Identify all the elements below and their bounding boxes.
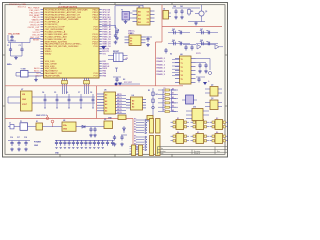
svg-text:NET4: NET4 <box>117 105 122 108</box>
svg-text:K6: K6 <box>216 132 218 134</box>
dcdc U8 <box>62 120 103 131</box>
svg-text:A2: A2 <box>105 100 107 103</box>
power label <box>36 115 47 117</box>
svg-text:O3: O3 <box>147 22 149 24</box>
sot part <box>163 8 171 20</box>
regulator U7 <box>8 89 32 111</box>
svg-text:RS485_3: RS485_3 <box>157 67 166 70</box>
svg-text:B0: B0 <box>132 101 134 103</box>
svg-text:K4: K4 <box>177 131 179 134</box>
ic U4 <box>175 53 196 84</box>
dc input parts <box>8 123 20 129</box>
svg-text:U7: U7 <box>21 89 23 91</box>
power blob bl <box>115 82 140 85</box>
power rails <box>32 97 95 103</box>
svg-text:8MHz: 8MHz <box>7 64 12 66</box>
svg-text:F1: F1 <box>20 121 22 123</box>
relay K2 <box>191 118 210 130</box>
bl text <box>34 142 41 148</box>
dc out ic <box>103 119 113 129</box>
hdr bottom part <box>147 116 153 123</box>
svg-text:C2: C2 <box>19 45 21 47</box>
u4 right wires <box>196 59 212 75</box>
svg-text:NET6: NET6 <box>117 112 122 114</box>
svg-text:IN2: IN2 <box>138 19 141 21</box>
svg-text:T2: T2 <box>181 67 183 69</box>
svg-text:C18: C18 <box>24 137 27 139</box>
svg-text:PB5: PB5 <box>102 76 106 78</box>
bl caps row <box>8 137 30 151</box>
u3 right parts <box>146 37 153 47</box>
u5 label <box>104 90 106 92</box>
svg-text:B1: B1 <box>132 103 134 105</box>
svg-text:K4: K4 <box>134 128 136 131</box>
svg-text:O2: O2 <box>147 19 149 21</box>
dc diode2 <box>121 126 127 135</box>
mcu U1 designator <box>58 6 78 8</box>
sot Q2 <box>205 85 222 97</box>
switch SW1 <box>36 121 62 130</box>
right mcu button S1 <box>108 51 129 62</box>
svg-text:D5: D5 <box>147 121 149 123</box>
tr wires2 <box>188 22 205 26</box>
svg-text:OSC 32.768K: OSC 32.768K <box>8 34 20 36</box>
svg-text:C5: C5 <box>54 92 56 94</box>
svg-text:P5: P5 <box>164 109 166 111</box>
svg-text:Y3: Y3 <box>121 10 123 12</box>
svg-text:R9: R9 <box>191 11 193 13</box>
svg-text:T3: T3 <box>181 71 183 73</box>
svg-text:Rev: Rev <box>217 151 220 153</box>
svg-text:TX1: TX1 <box>102 54 105 56</box>
ladder header <box>158 88 176 113</box>
divider v1 top <box>161 5 163 27</box>
mcu U1 right pin names <box>92 9 98 77</box>
bl mid caps <box>113 135 124 146</box>
svg-text:IN0: IN0 <box>138 12 141 14</box>
svg-text:NET1: NET1 <box>117 97 122 99</box>
fuse F1 <box>20 121 36 131</box>
mcu U1 bottom pins <box>62 78 90 94</box>
power port <box>46 115 49 120</box>
divider h2 topright <box>162 26 222 28</box>
svg-text:P1: P1 <box>164 92 166 94</box>
ic U6 <box>126 95 146 110</box>
u4 bottom right parts <box>196 77 210 85</box>
svg-text:RS485_0: RS485_0 <box>157 57 166 60</box>
crystal to mcu wires <box>30 38 41 42</box>
mcu U1 right pins <box>99 9 111 77</box>
svg-text:B2: B2 <box>132 106 134 108</box>
svg-text:RS485_2: RS485_2 <box>157 63 166 66</box>
svg-text:U3: U3 <box>130 33 132 35</box>
svg-text:U10: U10 <box>193 107 196 109</box>
svg-text:K3: K3 <box>216 118 218 120</box>
svg-text:J1: J1 <box>9 123 11 125</box>
svg-text:A5: A5 <box>105 110 107 113</box>
svg-text:GND: GND <box>63 129 68 131</box>
svg-text:GND: GND <box>22 99 27 101</box>
svg-text:P0: P0 <box>164 88 166 90</box>
svg-text:U5: U5 <box>104 90 106 92</box>
u4 top caps <box>183 45 223 51</box>
u4 net label stack <box>157 57 180 76</box>
u3 above labels <box>128 30 135 35</box>
svg-text:A3: A3 <box>105 103 107 106</box>
svg-text:IN1: IN1 <box>138 15 141 17</box>
sheet outer border <box>3 3 228 158</box>
svg-text:IN3: IN3 <box>138 22 141 24</box>
mid net labels <box>117 94 126 114</box>
svg-text:POWER: POWER <box>34 142 41 144</box>
divider h1 <box>5 85 183 87</box>
divider v3 <box>132 119 134 155</box>
cap array C20-C31 <box>55 140 106 148</box>
svg-text:VCC_EXT: VCC_EXT <box>124 82 133 84</box>
svg-text:A0: A0 <box>105 94 107 97</box>
right col labels <box>172 87 178 112</box>
svg-text:C41: C41 <box>180 5 183 8</box>
svg-text:O0: O0 <box>147 12 149 14</box>
divider part <box>108 115 126 120</box>
svg-text:A1: A1 <box>105 97 107 100</box>
svg-text:C8: C8 <box>90 92 92 94</box>
svg-text:D2: D2 <box>130 44 132 46</box>
tr circuit <box>172 5 200 19</box>
svg-text:Title: Title <box>160 147 163 150</box>
svg-text:C17: C17 <box>17 137 20 139</box>
svg-text:R3: R3 <box>148 90 150 92</box>
svg-text:K1: K1 <box>177 118 179 120</box>
divider v2 <box>96 86 98 119</box>
svg-text:Q2: Q2 <box>211 85 213 87</box>
sot Q3 <box>205 98 222 110</box>
marks x116 <box>115 68 118 72</box>
relay K1 <box>171 118 190 130</box>
svg-text:K5: K5 <box>197 132 199 134</box>
svg-text:VIN+: VIN+ <box>63 125 67 127</box>
svg-text:NET5: NET5 <box>117 109 122 111</box>
svg-text:PA4/SPI1/FSMC: PA4/SPI1/FSMC <box>45 75 61 78</box>
svg-text:D0: D0 <box>130 38 132 40</box>
mcu U1 left net labels <box>28 6 41 77</box>
svg-text:VDDA/: VDDA/ <box>45 53 52 56</box>
mcu U1 left pin names <box>45 8 88 77</box>
right mcu cap circuit <box>102 25 119 44</box>
svg-text:RS485_5: RS485_5 <box>157 73 166 76</box>
filter caps row <box>42 91 95 108</box>
svg-text:P2: P2 <box>164 96 166 98</box>
svg-text:A4: A4 <box>105 106 107 109</box>
svg-text:C1: C1 <box>7 45 9 47</box>
relay K4 <box>171 131 190 144</box>
ic U9b <box>186 107 209 121</box>
svg-text:C6: C6 <box>66 92 68 94</box>
svg-text:U6: U6 <box>132 95 134 97</box>
svg-text:C40: C40 <box>173 5 176 8</box>
svg-text:P3: P3 <box>164 101 166 103</box>
osc small parts <box>8 35 16 42</box>
svg-text:D1: D1 <box>130 41 132 43</box>
divider h3 <box>5 118 133 120</box>
connector J3 <box>134 136 160 156</box>
array label <box>55 152 60 154</box>
svg-text:T5: T5 <box>181 79 183 81</box>
relay K3 <box>210 118 229 130</box>
svg-text:GND VCC3.3: GND VCC3.3 <box>36 115 47 117</box>
relay K6 <box>210 132 229 144</box>
svg-text:C4: C4 <box>42 91 44 94</box>
svg-text:RESET: RESET <box>33 39 40 41</box>
svg-text:S1: S1 <box>36 121 38 123</box>
svg-text:Number: Number <box>160 151 166 153</box>
cap array extra <box>106 140 114 146</box>
xtal Y2 <box>182 95 197 104</box>
right mcu bottom cluster <box>113 77 125 86</box>
ic U3 <box>125 33 146 45</box>
u2 left parts <box>121 10 133 24</box>
svg-text:S2: S2 <box>123 79 125 81</box>
svg-text:J4: J4 <box>163 8 165 11</box>
svg-text:GND: GND <box>34 145 39 147</box>
ic U5 <box>97 92 117 114</box>
sheet inner border <box>5 5 225 155</box>
power circle <box>51 120 54 127</box>
svg-text:NET2: NET2 <box>117 100 122 102</box>
svg-text:C16: C16 <box>10 137 13 139</box>
divider v1 mid <box>156 27 163 86</box>
crystal label <box>7 64 12 66</box>
svg-text:X2: X2 <box>170 54 172 56</box>
conn bars <box>130 145 143 156</box>
title block <box>158 147 228 156</box>
svg-text:Y1 8M: Y1 8M <box>21 69 26 71</box>
border zone ticks <box>3 3 228 158</box>
svg-text:Q1: Q1 <box>205 11 207 13</box>
svg-text:T4: T4 <box>181 74 183 77</box>
svg-text:VCC5: VCC5 <box>196 53 201 55</box>
mcu U1 body <box>44 8 100 78</box>
svg-text:MCU V1.2: MCU V1.2 <box>18 7 26 9</box>
connector J2 <box>134 119 160 134</box>
crystal caps C1 C2 <box>7 40 30 60</box>
svg-text:Q3: Q3 <box>211 98 213 100</box>
svg-text:C7: C7 <box>78 92 80 94</box>
osc text <box>8 34 20 36</box>
svg-text:RESET: RESET <box>113 51 120 53</box>
svg-text:RS485_1: RS485_1 <box>157 60 166 63</box>
right mcu blob <box>101 46 106 50</box>
svg-text:U1 STM32F103VET6: U1 STM32F103VET6 <box>58 6 78 8</box>
svg-text:O1: O1 <box>147 15 149 17</box>
sheet background <box>0 0 230 161</box>
svg-text:U9: U9 <box>104 119 106 121</box>
tr bottom marks <box>164 48 200 56</box>
tr transistor Q1 <box>195 5 207 22</box>
dc diode <box>82 125 97 137</box>
svg-text:T0: T0 <box>181 59 183 61</box>
svg-text:T1: T1 <box>181 63 183 65</box>
crystal Y1 <box>16 69 41 82</box>
chain x153 <box>148 88 158 117</box>
svg-text:NET0: NET0 <box>117 94 122 96</box>
svg-text:NET3: NET3 <box>117 103 122 105</box>
tr cap bank <box>168 28 218 46</box>
title note <box>9 4 27 8</box>
svg-text:RS485_4: RS485_4 <box>157 70 166 73</box>
mcu U1 left pins <box>41 10 44 76</box>
svg-text:U2: U2 <box>138 6 140 8</box>
topmid wires <box>115 5 143 40</box>
svg-text:K5: K5 <box>134 131 136 133</box>
svg-text:Revision: Revision <box>194 151 200 153</box>
svg-text:U8: U8 <box>63 120 65 122</box>
relay K5 <box>191 132 210 144</box>
ic U2 <box>133 6 155 25</box>
